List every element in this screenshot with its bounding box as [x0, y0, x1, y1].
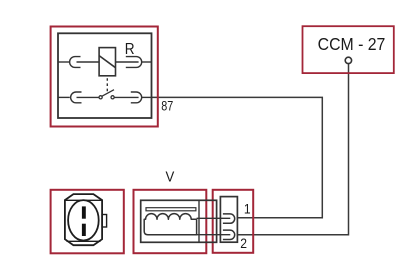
- svg-text:CCM - 27: CCM - 27: [318, 34, 386, 54]
- svg-text:87: 87: [161, 98, 173, 113]
- svg-text:V: V: [165, 168, 174, 185]
- svg-text:2: 2: [240, 235, 247, 251]
- svg-text:R: R: [125, 41, 135, 58]
- svg-text:1: 1: [244, 201, 251, 217]
